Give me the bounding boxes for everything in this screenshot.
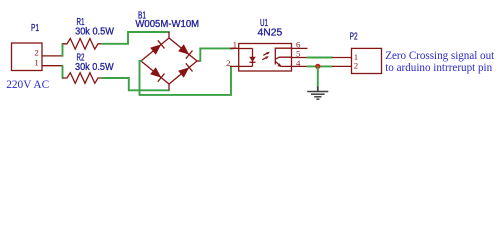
- internal LED: [239, 48, 253, 50]
- U1 pin 1 stub: [230, 47, 239, 49]
- svg-text:4: 4: [296, 58, 301, 68]
- diode D-TR (anode top vertex, cathode right): [178, 44, 189, 54]
- U1 pin 6 stub: [292, 47, 308, 49]
- wire P1 pin1 down to R2: [62, 66, 64, 78]
- diode D-LT (anode left vertex, cathode top): [150, 44, 161, 54]
- opto-coupler U1: [230, 44, 308, 72]
- svg-text:P2: P2: [350, 32, 358, 43]
- wire P1 pin2 up to R1: [62, 44, 64, 56]
- resistor R2: [63, 73, 103, 84]
- junction dot: [315, 64, 320, 69]
- wire junction to ground: [317, 66, 319, 86]
- svg-text:2: 2: [354, 60, 358, 70]
- resistor R1: [63, 39, 103, 50]
- svg-text:30k 0.5W: 30k 0.5W: [75, 27, 114, 38]
- U1 pin 2 stub: [230, 65, 239, 67]
- diode D-LB (anode left vertex, cathode bottom): [150, 67, 161, 77]
- wire U1 pin 4 to P2 pin 2: [308, 65, 333, 67]
- diode D-BR (anode bottom vertex, cathode right): [178, 67, 189, 77]
- svg-text:30k 0.5W: 30k 0.5W: [75, 62, 114, 73]
- svg-text:4N25: 4N25: [258, 28, 283, 39]
- svg-text:2: 2: [34, 48, 38, 58]
- svg-text:1: 1: [34, 58, 38, 68]
- wire U1 pin 5 to P2 pin 1: [308, 57, 333, 59]
- U1 pin 4 stub: [292, 65, 308, 67]
- svg-text:1: 1: [233, 40, 237, 50]
- svg-text:P1: P1: [31, 23, 39, 34]
- connector P1: [12, 43, 63, 71]
- internal phototransistor: [275, 48, 291, 54]
- svg-text:W005M-W10M: W005M-W10M: [135, 19, 199, 30]
- svg-text:220V AC: 220V AC: [6, 77, 49, 91]
- wire bridge minus (left vertex) to rail 2: [140, 61, 232, 95]
- wire R2 to bridge bottom (rail 1): [102, 78, 169, 90]
- svg-text:to arduino intrrerupt pin: to arduino intrrerupt pin: [385, 60, 492, 74]
- svg-text:2: 2: [226, 58, 230, 68]
- U1 pin 5 stub: [292, 57, 308, 59]
- wire R1 to bridge top: [102, 32, 169, 44]
- light arrows: [263, 53, 268, 55]
- ground: [307, 87, 328, 100]
- wire bridge plus (right vertex) to U1 pin 1: [200, 48, 233, 61]
- connector P2: [332, 48, 382, 73]
- bridge rectifier B1: [141, 32, 200, 90]
